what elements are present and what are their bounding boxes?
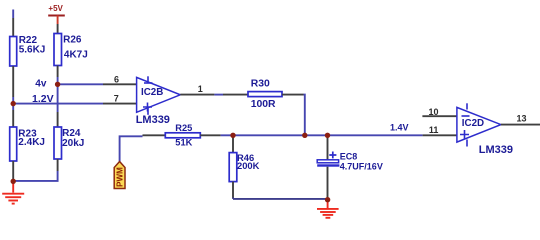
svg-text:IC2D: IC2D <box>462 118 484 129</box>
svg-text:1: 1 <box>198 84 203 94</box>
svg-text:100R: 100R <box>251 99 276 110</box>
svg-text:R26: R26 <box>63 34 82 45</box>
svg-text:EC8: EC8 <box>340 151 358 161</box>
svg-text:51K: 51K <box>175 137 192 147</box>
svg-text:2.4KJ: 2.4KJ <box>18 137 45 148</box>
svg-text:4v: 4v <box>35 78 47 89</box>
svg-text:7: 7 <box>114 93 119 103</box>
svg-text:1.4V: 1.4V <box>390 122 409 132</box>
svg-text:PWM: PWM <box>116 167 125 187</box>
svg-text:6: 6 <box>114 74 119 84</box>
svg-text:+5V: +5V <box>48 4 63 13</box>
svg-text:LM339: LM339 <box>136 114 170 126</box>
svg-text:4K7J: 4K7J <box>64 50 88 61</box>
svg-text:1.2V: 1.2V <box>32 93 54 105</box>
svg-text:13: 13 <box>517 114 527 124</box>
svg-text:IC2B: IC2B <box>141 87 163 98</box>
svg-text:200K: 200K <box>237 160 260 171</box>
svg-text:10: 10 <box>429 107 439 117</box>
svg-text:5.6KJ: 5.6KJ <box>19 44 46 55</box>
svg-text:4.7UF/16V: 4.7UF/16V <box>340 161 383 171</box>
svg-text:R30: R30 <box>251 79 270 90</box>
svg-text:11: 11 <box>429 125 439 135</box>
svg-text:LM339: LM339 <box>479 144 513 156</box>
svg-text:20kJ: 20kJ <box>62 138 84 149</box>
svg-text:R25: R25 <box>175 123 192 133</box>
